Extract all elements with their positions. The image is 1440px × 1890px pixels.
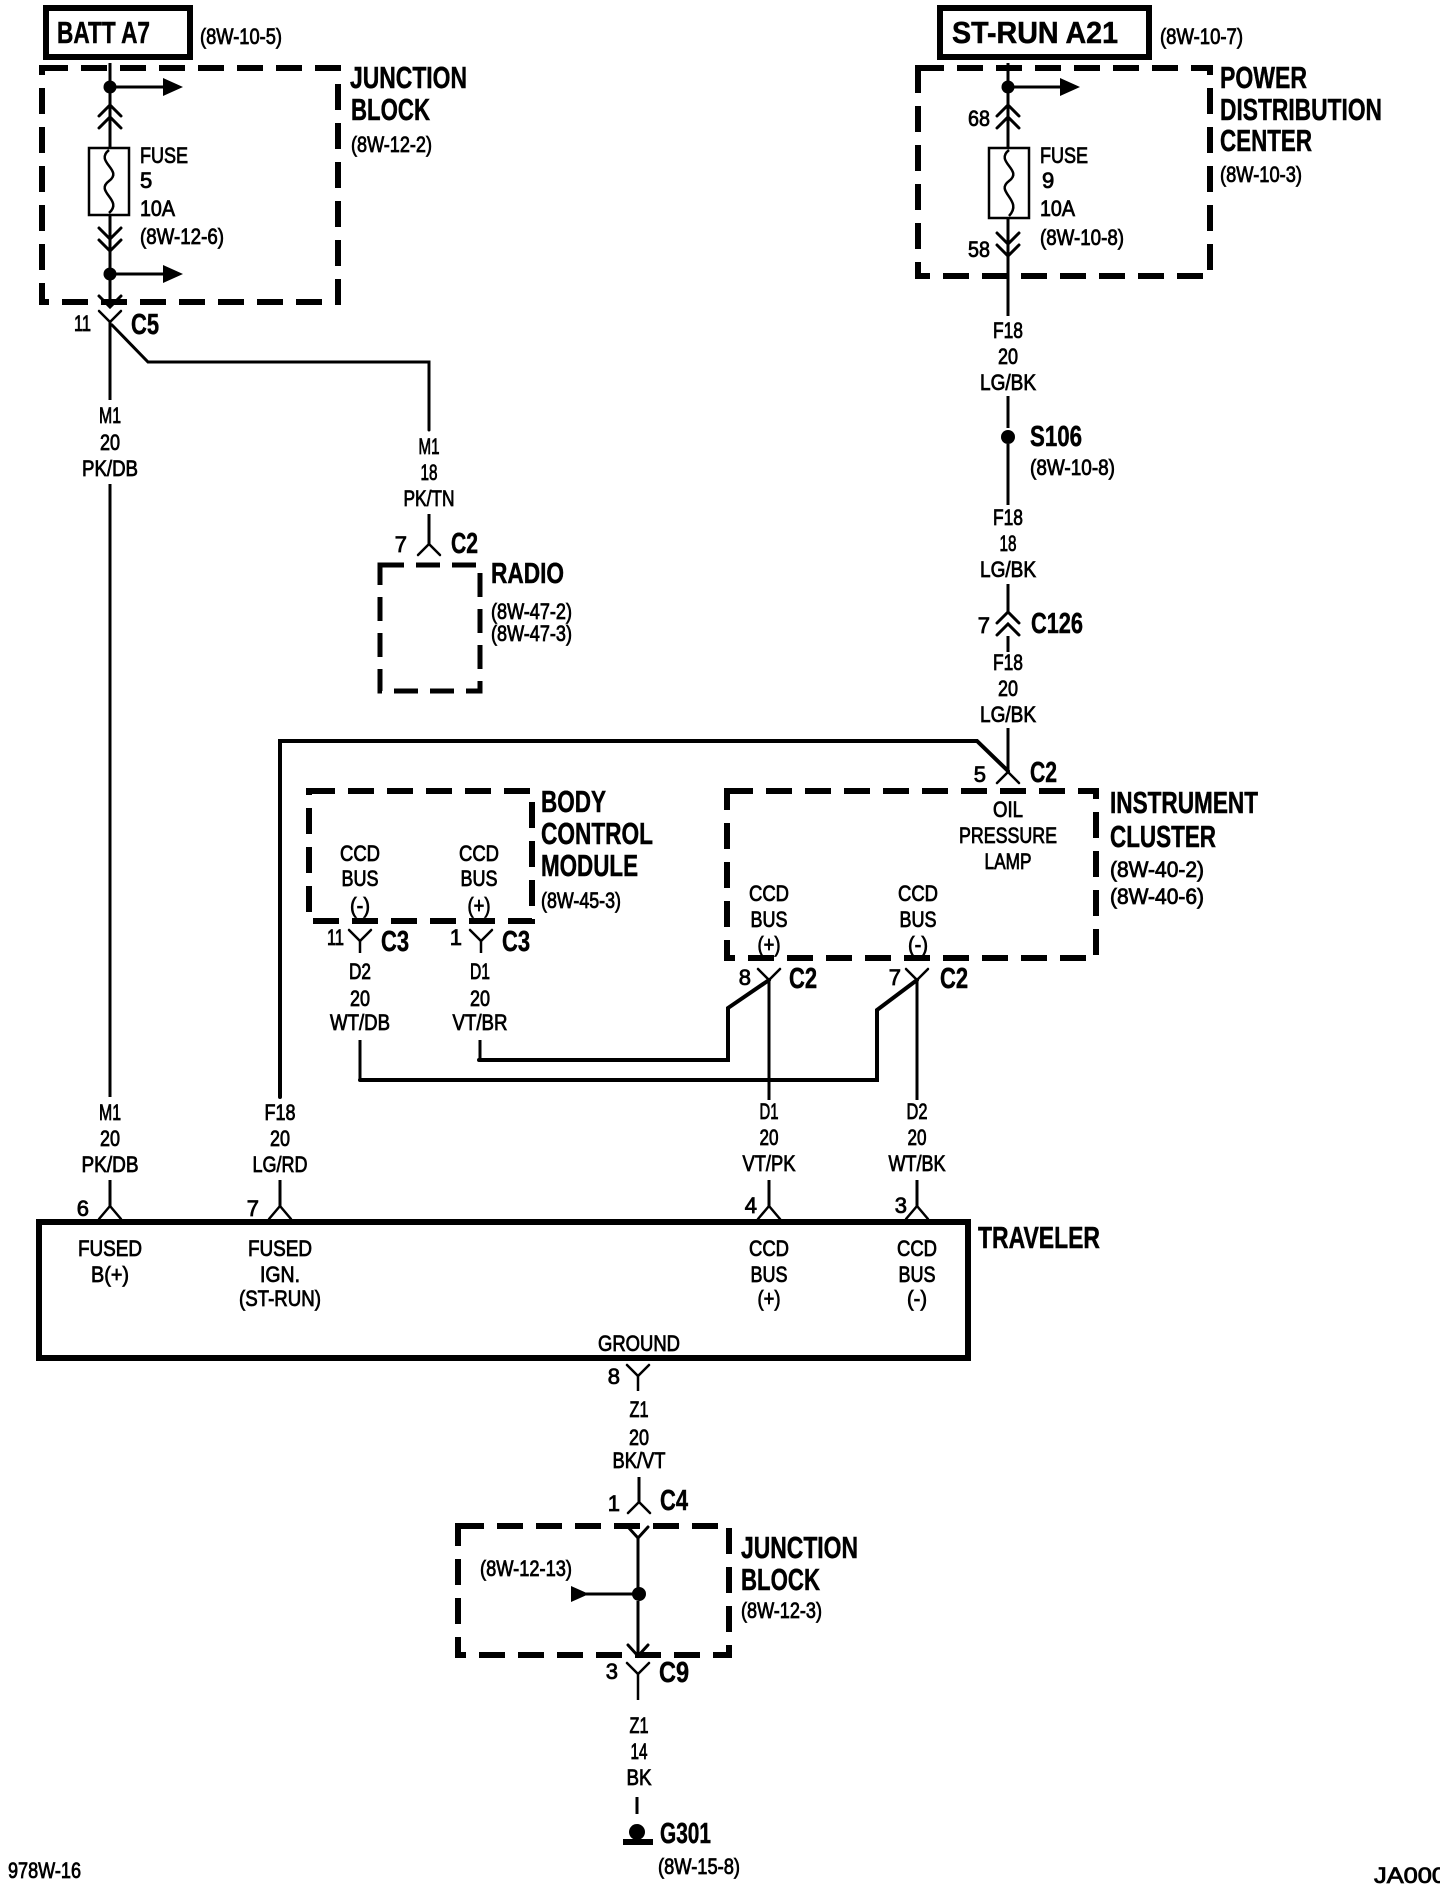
wire D1 to jumper [479,1040,482,1061]
svg-text:PK/DB: PK/DB [82,456,138,481]
connector C2 pin 8 [758,969,780,980]
svg-text:VT/BR: VT/BR [453,1010,508,1035]
svg-text:8: 8 [739,965,751,990]
svg-text:G301: G301 [660,1818,711,1850]
wire fuse 5 output [109,215,112,307]
svg-text:BLOCK: BLOCK [351,92,430,127]
svg-text:(8W-40-2): (8W-40-2) [1110,857,1204,882]
svg-text:BATT A7: BATT A7 [57,15,150,50]
svg-text:(+): (+) [758,1286,781,1311]
connector C2 pin 5 [997,772,1019,783]
svg-text:C126: C126 [1031,608,1083,640]
svg-text:LAMP: LAMP [985,849,1032,874]
svg-text:18: 18 [421,460,438,485]
svg-text:POWER: POWER [1220,60,1307,95]
svg-text:20: 20 [470,986,490,1011]
connector traveler pin 7 [269,1206,291,1219]
connector traveler pin 3 [906,1206,928,1219]
wire to ground G301 [636,1797,639,1814]
svg-text:20: 20 [760,1125,779,1150]
svg-text:B(+): B(+) [91,1262,129,1287]
connector C2 pin 7 (radio) [418,544,440,555]
connector chevrons out of fuse 5 [99,228,121,239]
svg-text:18: 18 [1000,531,1017,556]
svg-text:F18: F18 [993,650,1023,675]
chevron out of JB2 [628,1645,648,1656]
junction dot JB2 [632,1587,646,1601]
svg-text:BK/VT: BK/VT [613,1448,666,1473]
svg-text:20: 20 [998,676,1018,701]
svg-text:1: 1 [608,1491,620,1516]
svg-text:CLUSTER: CLUSTER [1110,819,1216,854]
svg-text:C2: C2 [789,963,817,995]
svg-text:(8W-12-6): (8W-12-6) [140,224,224,249]
svg-text:(8W-12-3): (8W-12-3) [741,1598,822,1623]
svg-text:C9: C9 [659,1657,689,1689]
svg-text:CCD: CCD [340,841,380,866]
svg-text:FUSE: FUSE [140,143,188,168]
wire BATT feed into JB1 [109,63,112,148]
connector C3 pin 11 [349,930,371,941]
wire F18 feed long run [280,741,1008,1097]
junction dot J3 [1002,81,1015,94]
svg-text:TRAVELER: TRAVELER [978,1220,1100,1255]
svg-text:10A: 10A [1040,196,1075,221]
svg-text:BODY: BODY [541,784,606,819]
svg-text:(8W-40-6): (8W-40-6) [1110,884,1204,909]
connector C3 pin 1 [470,930,492,941]
svg-text:3: 3 [606,1659,618,1684]
connector chevrons into fuse 5 [99,105,121,116]
svg-text:(ST-RUN): (ST-RUN) [239,1286,321,1311]
svg-text:10A: 10A [140,196,175,221]
svg-text:CONTROL: CONTROL [541,816,653,851]
svg-text:978W-16: 978W-16 [8,1858,81,1883]
wire S106 down [1007,444,1010,505]
svg-text:58: 58 [968,237,990,262]
connector traveler pin 6 [99,1206,121,1219]
svg-text:IGN.: IGN. [260,1262,300,1287]
svg-text:CCD: CCD [749,881,789,906]
wire fuse 9 output [1007,218,1010,316]
svg-text:LG/RD: LG/RD [253,1152,308,1177]
svg-text:M1: M1 [419,434,440,459]
fuse 9 symbol [989,148,1029,218]
svg-text:(8W-47-3): (8W-47-3) [491,621,572,646]
svg-text:20: 20 [629,1425,649,1450]
svg-text:7: 7 [978,613,990,638]
power distribution center outline [918,68,1210,276]
pin 68 chevrons into fuse 9 [997,105,1019,116]
svg-text:F18: F18 [993,318,1023,343]
svg-text:14: 14 [631,1739,648,1764]
svg-text:M1: M1 [99,1100,121,1125]
wire D2 20 WT/BK [916,980,919,1100]
connector C5 pin 11 [99,311,121,322]
svg-text:20: 20 [100,1126,120,1151]
svg-text:(8W-12-13): (8W-12-13) [480,1556,572,1581]
svg-text:5: 5 [974,762,986,787]
svg-text:INSTRUMENT: INSTRUMENT [1110,785,1258,820]
svg-text:(-): (-) [907,1286,927,1311]
traveler module outline [39,1222,968,1358]
arrow bus feed right (PDC) [1008,86,1066,89]
svg-text:S106: S106 [1030,421,1082,453]
svg-text:8: 8 [608,1364,620,1389]
svg-text:FUSE: FUSE [1040,143,1088,168]
svg-text:F18: F18 [265,1100,296,1125]
svg-text:3: 3 [895,1193,907,1218]
svg-text:PK/TN: PK/TN [404,486,455,511]
svg-text:6: 6 [77,1196,89,1221]
svg-text:JUNCTION: JUNCTION [741,1530,858,1565]
svg-text:D2: D2 [907,1099,928,1124]
svg-text:LG/BK: LG/BK [980,702,1036,727]
svg-text:BLOCK: BLOCK [741,1562,820,1597]
svg-text:WT/DB: WT/DB [330,1010,390,1035]
svg-text:(8W-10-5): (8W-10-5) [200,24,282,49]
wire into traveler pin 3 [916,1180,919,1206]
svg-text:11: 11 [327,925,344,950]
svg-text:LG/BK: LG/BK [980,557,1036,582]
svg-text:(-): (-) [350,893,370,918]
svg-text:(-): (-) [908,932,928,957]
svg-text:RADIO: RADIO [491,558,564,590]
wire into traveler pin 7 [279,1180,282,1206]
svg-text:BUS: BUS [899,1262,936,1287]
svg-text:BK: BK [627,1765,652,1790]
svg-text:(8W-45-3): (8W-45-3) [541,888,621,913]
svg-text:20: 20 [998,344,1018,369]
svg-text:(+): (+) [758,932,781,957]
svg-text:C4: C4 [660,1485,688,1517]
instrument cluster outline [727,791,1096,958]
svg-text:JUNCTION: JUNCTION [350,60,467,95]
wire jumper D2 to C2 pin 7 [360,980,917,1080]
svg-text:4: 4 [745,1193,757,1218]
svg-text:D1: D1 [470,959,490,984]
wire into C126 [1007,584,1010,612]
wire ST-RUN feed into PDC [1007,63,1010,148]
svg-text:D2: D2 [349,959,371,984]
pin 58 chevrons out of fuse 9 [997,233,1019,244]
svg-text:9: 9 [1042,168,1054,193]
arrow bus feed right (bottom) [110,273,169,276]
svg-text:(8W-10-7): (8W-10-7) [1160,24,1243,49]
wire inside JB2 lower [637,1601,640,1656]
svg-text:20: 20 [270,1126,290,1151]
svg-text:68: 68 [968,106,990,131]
connector C4 pin 1 [628,1502,650,1513]
svg-text:CCD: CCD [898,881,938,906]
connector C9 pin 3 [627,1663,649,1674]
junction dot J2 [104,268,117,281]
svg-text:(8W-12-2): (8W-12-2) [351,132,432,157]
svg-text:FUSED: FUSED [78,1236,142,1261]
svg-text:20: 20 [100,430,120,455]
svg-text:7: 7 [395,532,407,557]
svg-text:20: 20 [350,986,370,1011]
chevron into JB2 [628,1527,648,1538]
svg-text:(8W-10-3): (8W-10-3) [1220,162,1302,187]
wire into C4 [638,1477,641,1502]
svg-text:M1: M1 [99,403,121,428]
svg-text:(8W-10-8): (8W-10-8) [1040,225,1124,250]
svg-text:CCD: CCD [897,1236,937,1261]
svg-text:C3: C3 [381,926,409,958]
svg-text:GROUND: GROUND [598,1331,680,1356]
svg-text:CENTER: CENTER [1220,123,1312,158]
wire M1 20 PK/DB lower [109,484,112,1097]
splice S106 [1001,430,1015,444]
svg-text:MODULE: MODULE [541,848,638,883]
arrow feed inside JB2 [571,1586,589,1602]
svg-text:BUS: BUS [751,1262,788,1287]
svg-text:WT/BK: WT/BK [889,1151,946,1176]
connector C2 pin 7 (IC) [906,969,928,980]
junction block JB2 outline [458,1526,729,1655]
svg-text:JA000: JA000 [1374,1863,1440,1888]
arrow bus feed right (top) [110,86,169,89]
wire D1 20 VT/PK [768,980,771,1100]
connector traveler pin 4 [758,1206,780,1219]
connector traveler pin 8 (ground) [627,1365,649,1376]
svg-text:1: 1 [450,925,462,950]
wire D2 to jumper [359,1040,362,1081]
body control module outline [309,791,532,921]
wire jumper D1 to C2 pin 8 [479,980,769,1060]
node BATT A7 (fuse block terminal) [46,8,190,57]
wire into instrument cluster pin 5 [1007,728,1010,772]
svg-text:CCD: CCD [459,841,499,866]
svg-text:7: 7 [889,965,901,990]
svg-text:C3: C3 [502,926,530,958]
svg-text:BUS: BUS [900,907,937,932]
svg-text:(8W-15-8): (8W-15-8) [658,1854,740,1879]
svg-text:PK/DB: PK/DB [82,1152,139,1177]
svg-text:LG/BK: LG/BK [980,370,1036,395]
svg-text:ST-RUN A21: ST-RUN A21 [952,15,1118,50]
svg-text:Z1: Z1 [630,1397,649,1422]
radio outline [380,565,480,691]
svg-text:5: 5 [140,168,152,193]
svg-text:DISTRIBUTION: DISTRIBUTION [1220,92,1382,127]
wire into radio [428,514,431,544]
svg-text:C2: C2 [451,528,478,560]
junction block JB1 outline [42,68,338,302]
svg-text:(+): (+) [468,893,491,918]
svg-text:Z1: Z1 [630,1713,649,1738]
svg-text:BUS: BUS [342,866,379,891]
svg-text:BUS: BUS [461,866,498,891]
svg-text:VT/PK: VT/PK [743,1151,796,1176]
svg-text:BUS: BUS [751,907,788,932]
junction dot J1 [104,81,117,94]
chevron pin 11 male [99,296,121,307]
svg-text:PRESSURE: PRESSURE [959,823,1057,848]
connector C126 pin 7 [997,612,1019,623]
wire inside JB2 upper [637,1538,640,1588]
svg-text:C2: C2 [940,963,968,995]
svg-text:C5: C5 [131,309,159,341]
wire branch C5 to radio (diagonal) [112,325,429,430]
svg-text:20: 20 [908,1125,927,1150]
ground G301 symbol [629,1824,645,1840]
wire into traveler pin 4 [768,1180,771,1206]
svg-text:(8W-10-8): (8W-10-8) [1030,455,1115,480]
svg-text:7: 7 [247,1196,259,1221]
wire to splice S106 [1007,396,1010,428]
svg-text:FUSED: FUSED [248,1236,312,1261]
wire into traveler pin 6 [109,1180,112,1206]
svg-text:C2: C2 [1030,757,1057,789]
wire C126 down [1007,636,1010,652]
svg-text:CCD: CCD [749,1236,789,1261]
svg-text:OIL: OIL [993,797,1023,822]
svg-text:D1: D1 [760,1099,779,1124]
fuse 5 symbol [89,148,129,215]
svg-text:11: 11 [74,311,91,336]
node ST-RUN A21 (PDC terminal) [940,8,1149,57]
svg-text:F18: F18 [993,505,1023,530]
wire M1 20 PK/DB upper [109,322,112,400]
